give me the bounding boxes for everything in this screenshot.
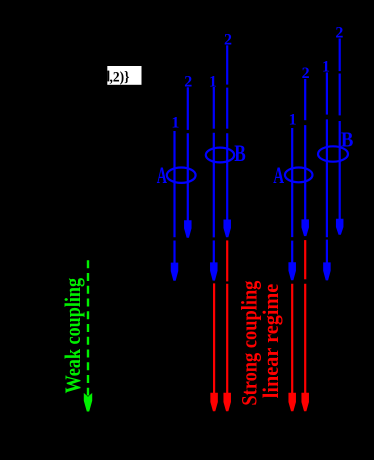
line L-B1 middle segment xyxy=(213,133,215,238)
blue arrowhead L-B2 xyxy=(223,220,231,238)
line L-A1 upper segment xyxy=(173,131,175,237)
line R-B1 arrow shaft xyxy=(326,240,328,264)
red arrowhead L-B1 xyxy=(210,393,218,411)
blue arrowhead R-A1 xyxy=(288,262,296,280)
blue arrowhead R-A2 xyxy=(301,219,309,236)
red line R-A1 strong coupling xyxy=(291,284,293,394)
red arrowhead L-B2 xyxy=(223,393,231,411)
red line L-B1 strong coupling xyxy=(213,283,215,394)
line L-A2 arrow shaft xyxy=(187,133,189,221)
red line R-A2 lower xyxy=(304,284,306,394)
red segment L-B2 upper xyxy=(226,240,228,281)
svg-text:linear regime: linear regime xyxy=(258,283,283,398)
line R-B2 second segment xyxy=(339,74,341,116)
label box "(1,2)}" partially shown xyxy=(107,66,141,85)
clipped digit 1 fragment xyxy=(107,71,109,82)
line R-B2 top segment xyxy=(339,39,341,72)
line L-B1 arrow shaft xyxy=(213,240,215,264)
ellipse around pair A (right group) xyxy=(285,168,313,183)
ellipse around pair B (right group) xyxy=(318,146,348,161)
line R-A1 arrow shaft xyxy=(291,241,293,264)
line L-B2 arrow shaft xyxy=(226,133,228,221)
green dashed weak-coupling arrow xyxy=(87,260,89,395)
blue arrowhead R-B2 xyxy=(336,219,344,235)
line R-A1 upper segment xyxy=(291,128,293,237)
blue arrowhead L-A2 xyxy=(184,220,192,238)
line R-A2 upper segment xyxy=(304,79,306,120)
svg-text:2: 2 xyxy=(302,65,310,82)
ellipse around pair B (left group) xyxy=(206,148,234,163)
svg-text:1: 1 xyxy=(209,73,217,90)
red line L-B2 lower xyxy=(226,284,228,394)
blue arrowhead L-A1 xyxy=(171,263,179,281)
line L-B1 upper segment xyxy=(213,87,215,129)
svg-text:A: A xyxy=(273,163,284,188)
svg-text:2: 2 xyxy=(224,32,232,49)
line R-B1 middle segment xyxy=(326,119,328,237)
svg-text:B: B xyxy=(341,128,354,152)
line R-B1 upper segment xyxy=(326,72,328,114)
line L-A1 arrow shaft xyxy=(173,241,175,265)
svg-text:A: A xyxy=(157,163,167,188)
svg-text:1: 1 xyxy=(171,114,179,131)
line R-A2 arrow shaft xyxy=(304,125,306,220)
blue arrowhead R-B1 xyxy=(323,262,331,280)
svg-text:,2)}: ,2)} xyxy=(110,69,130,85)
line L-A2 upper segment xyxy=(187,87,189,130)
svg-text:1: 1 xyxy=(322,58,330,75)
svg-text:B: B xyxy=(234,141,246,166)
svg-text:2: 2 xyxy=(184,73,192,90)
line L-B2 second segment xyxy=(226,88,228,129)
svg-text:2: 2 xyxy=(335,24,343,41)
line L-B2 top segment xyxy=(226,45,228,84)
red segment R-A2 upper xyxy=(304,240,306,279)
green arrowhead xyxy=(84,393,92,412)
svg-text:1: 1 xyxy=(289,112,297,129)
svg-text:Weak coupling: Weak coupling xyxy=(60,278,85,394)
red arrowhead R-A1 xyxy=(288,393,296,411)
ellipse around pair A (left group) xyxy=(167,168,196,183)
line R-B2 arrow shaft xyxy=(339,121,341,220)
red arrowhead R-A2 xyxy=(301,393,309,411)
blue arrowhead L-B1 xyxy=(210,262,218,280)
